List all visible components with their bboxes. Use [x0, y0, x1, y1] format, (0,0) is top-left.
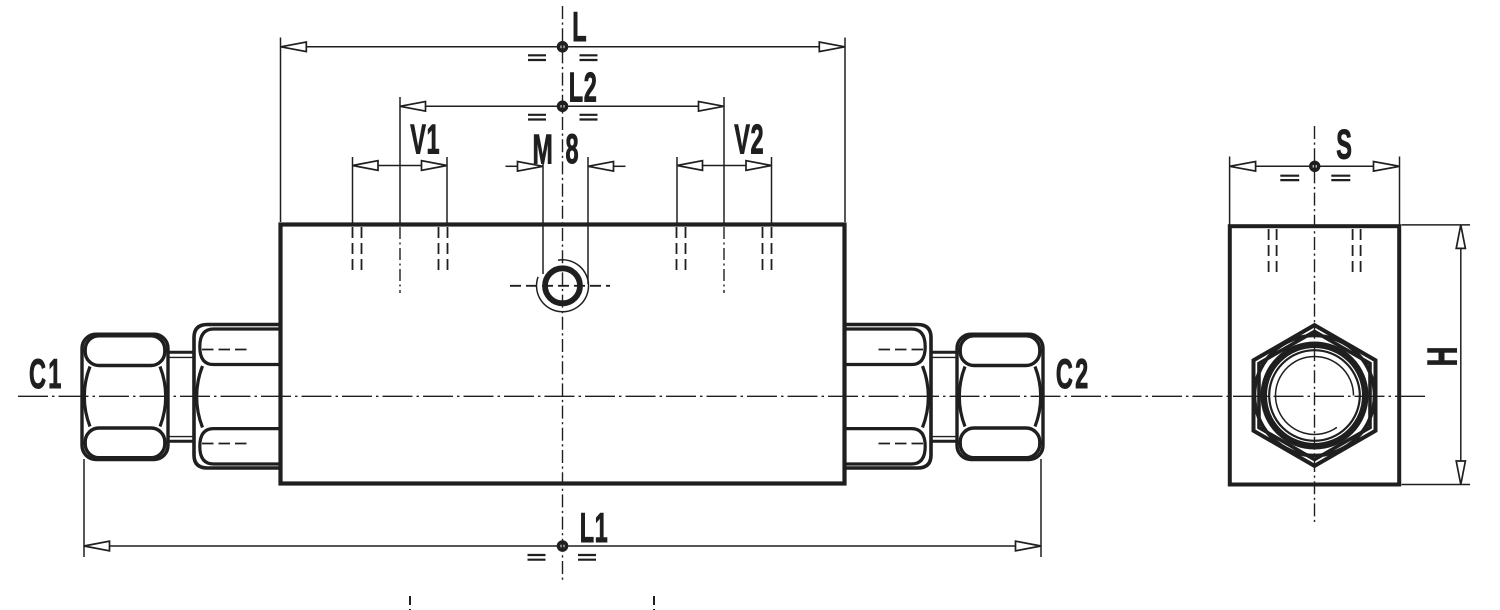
dimension L — [281, 38, 846, 223]
end view body block — [1230, 226, 1399, 484]
end view outer hex nut — [1254, 325, 1376, 466]
chamfer circle inner — [1262, 343, 1367, 448]
right large hex (body port boss) — [845, 325, 932, 469]
chamfer circle outer — [1255, 336, 1375, 456]
hidden thread bore lines, right boss — [878, 349, 924, 351]
hidden thread bore lines, left boss — [202, 349, 248, 351]
V1 port hidden thread lines — [353, 227, 448, 273]
hidden line through M8 hole — [510, 285, 610, 287]
dimension S — [1230, 157, 1400, 225]
dimension L1 — [84, 459, 1041, 557]
svg-text:L2: L2 — [569, 64, 598, 111]
M8 thread major dia thin arc (gap upper-left) — [537, 260, 589, 312]
M8 tapped hole: minor dia thick circle — [545, 268, 580, 303]
V2 port centerline — [723, 227, 725, 293]
svg-text:L: L — [572, 4, 586, 51]
svg-text:L1: L1 — [580, 505, 609, 552]
dimension L2 — [400, 97, 724, 224]
left outer nut C1 (side view) — [82, 334, 168, 459]
right thread neck — [930, 352, 959, 441]
dimension V2 — [677, 157, 772, 223]
right outer nut C2 (side view, mirrored) — [957, 334, 1043, 459]
right outer nut C2 + neck + large hex (mirrored) — [845, 325, 1044, 469]
end view hidden port lines — [1269, 229, 1361, 275]
main horizontal centerline C1-C2 — [18, 395, 1428, 397]
bottom cropped centerline stubs — [409, 596, 411, 610]
V1 port centerline — [399, 227, 401, 293]
fitting body circle — [1265, 346, 1365, 446]
svg-text:H: H — [1419, 347, 1466, 367]
V2 port hidden thread lines — [677, 227, 772, 273]
thread major thin arc (gap lower right) — [1276, 356, 1354, 434]
svg-text:M: M — [533, 127, 553, 173]
end view vertical centerline — [1314, 126, 1316, 522]
left thread neck — [167, 352, 196, 441]
svg-text:S: S — [1336, 122, 1352, 169]
dimension H — [1402, 225, 1471, 485]
valve body block (front view) — [281, 225, 845, 484]
svg-text:C1: C1 — [29, 351, 64, 398]
end view inner hex — [1259, 331, 1370, 459]
svg-text:V1: V1 — [410, 117, 440, 164]
dimension M8 — [506, 157, 626, 284]
svg-text:8: 8 — [566, 126, 579, 173]
dimension V1 — [353, 157, 448, 223]
svg-text:V2: V2 — [734, 117, 764, 164]
svg-text:C2: C2 — [1056, 351, 1091, 398]
left large hex (body port boss) — [194, 325, 281, 469]
thread minor circle — [1269, 350, 1360, 441]
main vertical centerline — [562, 6, 564, 582]
